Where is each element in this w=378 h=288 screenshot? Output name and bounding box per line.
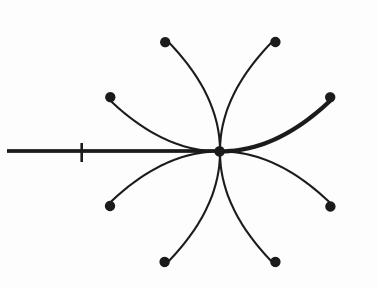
wire: solution curve to top-left node (165, 42, 220, 151)
node bottom-left (159, 257, 169, 267)
tick mark on axis (80, 143, 83, 162)
node bottom-right (270, 257, 280, 267)
wire: solution curve to bottom-right node (220, 151, 275, 262)
node top-right (270, 37, 280, 47)
wire: solution curve to upper-left node (110, 97, 220, 151)
node lower-right (325, 201, 335, 211)
wire: solution curve to bottom-left node (165, 151, 220, 262)
node lower-left (105, 201, 115, 211)
wire: thick horizontal half-axis from left edge to center (7, 149, 221, 153)
wire: solution curve to lower-right node (220, 151, 330, 206)
node: center singular point (214, 146, 225, 157)
wire: solution curve to lower-left node (110, 151, 220, 206)
node upper-right (325, 92, 335, 102)
wire: thick solution curve to upper-right node (220, 97, 330, 151)
node upper-left (105, 92, 115, 102)
wire: solution curve to top-right node (220, 42, 275, 151)
node top-left (160, 37, 170, 47)
